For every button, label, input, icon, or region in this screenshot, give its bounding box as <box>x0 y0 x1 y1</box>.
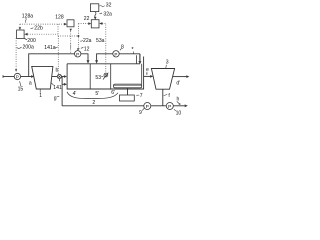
label d' <box>176 80 180 86</box>
controller box 22 <box>91 20 99 28</box>
leader tilde 22b <box>31 28 34 29</box>
tank 3 bottom downpipe <box>162 89 164 106</box>
label 12 <box>84 46 90 52</box>
label 7 <box>140 93 143 99</box>
label 8 <box>121 44 124 50</box>
controller box 128 <box>67 20 74 27</box>
svg-text:32: 32 <box>106 2 112 8</box>
launder inside tank 2 <box>114 84 142 88</box>
svg-text:P: P <box>114 52 117 57</box>
svg-text:P: P <box>168 104 171 110</box>
tank 1 trapezoid <box>32 66 53 89</box>
label 9 <box>139 110 142 116</box>
pump P8 <box>113 51 119 57</box>
svg-text:P: P <box>76 52 79 57</box>
label 3 <box>166 59 169 65</box>
divider 1 <box>89 64 91 89</box>
svg-text:53a: 53a <box>96 38 105 44</box>
leader tilde 141a <box>55 47 58 48</box>
leader 32a text tick <box>100 12 103 15</box>
tank 1 outlet pipe to valve 141 <box>52 76 58 78</box>
svg-text:12: 12 <box>84 46 90 52</box>
label 200a <box>23 44 34 50</box>
pump P12 <box>75 51 81 57</box>
svg-text:7: 7 <box>140 93 143 99</box>
bottom pipe <box>62 105 144 107</box>
controller box 32 <box>90 4 98 12</box>
label a <box>29 81 32 87</box>
dashed line from box 22 right, down to nozzle 53 <box>102 24 106 73</box>
label 141a <box>44 45 55 51</box>
label f <box>168 93 170 99</box>
dashed vertical connecting line A to line C at x58 <box>57 24 59 36</box>
svg-text:j: j <box>69 44 71 50</box>
label 128a <box>22 13 33 19</box>
right wall extension above tank top <box>135 55 137 64</box>
branch arrow from line A down into box 200 <box>19 24 21 26</box>
dashed line 22a vertical from line D down to pump 12 <box>77 24 79 49</box>
pipe segment 2 from riser to pump 8 and to channel <box>97 54 113 61</box>
svg-text:141a: 141a <box>44 45 55 51</box>
label 53 <box>95 75 101 81</box>
leader tilde for 32 <box>99 6 104 7</box>
pump P9 <box>144 103 151 110</box>
label 22a <box>83 38 92 44</box>
dashed line box 200 down to pump 15 <box>15 38 17 69</box>
branch arrow into tank 2 left wall lower <box>62 83 64 85</box>
label 141 <box>53 85 62 91</box>
tank 2 rectangle <box>67 57 144 90</box>
arrowhead into box 128 left <box>64 23 67 26</box>
label e with small arrow <box>146 67 149 73</box>
tank 3 trapezoid <box>151 69 174 90</box>
controller box 200 <box>17 30 25 38</box>
label 10 <box>176 110 182 116</box>
pump P15 <box>14 73 20 79</box>
dashed line C to junction <box>58 35 78 37</box>
arrow down into channel <box>138 61 141 64</box>
e arrow from channel to tank 3 <box>144 75 151 77</box>
svg-text:141: 141 <box>53 85 62 91</box>
svg-text:9: 9 <box>139 110 142 116</box>
svg-text:10: 10 <box>176 110 182 116</box>
label 200 <box>27 38 36 44</box>
leader for 200 <box>24 38 27 39</box>
inner right channel wall <box>141 64 143 84</box>
label j <box>69 44 71 50</box>
svg-text:32a: 32a <box>103 11 112 17</box>
svg-text:d': d' <box>176 80 180 86</box>
svg-text:e: e <box>146 67 149 73</box>
labels 4' 5' 6' <box>73 91 77 97</box>
svg-text:53: 53 <box>95 75 101 81</box>
dashed line D corner into box 22 left <box>78 23 88 25</box>
svg-text:4': 4' <box>73 91 77 97</box>
label 15 <box>18 86 24 92</box>
label 128 <box>55 14 64 20</box>
main pipe from corner through pump 12 to tank 2 arrow 1 <box>29 54 75 77</box>
label 2 <box>92 100 95 106</box>
launder drain into box 7 <box>127 88 129 95</box>
drain branch from valve outlet down <box>61 77 63 106</box>
leader tilde 22a <box>80 40 83 41</box>
label 32a <box>103 11 112 17</box>
label h with small arrow <box>177 97 180 103</box>
svg-text:128a: 128a <box>22 13 33 19</box>
arrowhead into box 22 right <box>99 22 102 25</box>
arrowhead into box 200 right <box>24 33 27 36</box>
svg-text:200: 200 <box>27 38 36 44</box>
label 22b <box>34 26 43 32</box>
label 1 <box>39 93 42 99</box>
svg-text:22a: 22a <box>83 38 92 44</box>
svg-text:8: 8 <box>121 44 124 50</box>
nozzle 53 circle-slash <box>104 73 108 77</box>
underbrace for 2 <box>67 92 118 99</box>
pump 15 inlet line <box>3 76 14 78</box>
svg-text:b: b <box>56 67 59 73</box>
valve 141 circle with slash <box>57 74 61 78</box>
dashed line j from box 128 down to pipe <box>70 31 72 43</box>
svg-text:2: 2 <box>92 100 95 106</box>
svg-text:1: 1 <box>39 93 42 99</box>
label g <box>54 95 57 101</box>
leader for 200a <box>17 47 22 48</box>
d arrow out of tank 3 <box>173 76 187 78</box>
svg-text:3: 3 <box>166 59 169 65</box>
svg-text:22b: 22b <box>34 26 43 32</box>
svg-text:6': 6' <box>111 90 115 96</box>
arrow into tank 2 left wall <box>62 76 65 78</box>
svg-text:P: P <box>146 104 149 110</box>
svg-text:g: g <box>54 95 57 101</box>
svg-text:200a: 200a <box>23 44 34 50</box>
svg-text:a: a <box>29 81 32 87</box>
svg-text:22: 22 <box>84 16 90 22</box>
svg-text:P: P <box>16 75 19 80</box>
label 22 <box>84 16 90 22</box>
divider 2 <box>110 64 112 89</box>
dashed line 141a from junction area down to valve 141 <box>57 36 59 74</box>
svg-text:15: 15 <box>18 86 24 92</box>
dashed line B into box 200 right side <box>28 33 58 35</box>
leader zigzag 128a <box>24 18 27 23</box>
svg-text:5': 5' <box>95 91 99 97</box>
asterisk on pipe <box>131 47 134 53</box>
junction dot <box>77 35 79 37</box>
label 32 <box>106 2 112 8</box>
label b <box>56 67 59 73</box>
leader squiggle 32a + arrow into box 22 top <box>95 12 96 17</box>
arrow into tank 2 top (left) <box>87 60 90 63</box>
label 53a <box>96 38 105 44</box>
pump 15 outlet joining downcomer, arrow a into tank 1 <box>21 76 32 78</box>
box 7 <box>120 95 135 101</box>
svg-text:128: 128 <box>55 14 64 20</box>
pump P10 <box>166 103 173 110</box>
dashed line A from left to box 128 <box>20 23 64 25</box>
arrow into tank 2 top (right) <box>95 60 98 63</box>
